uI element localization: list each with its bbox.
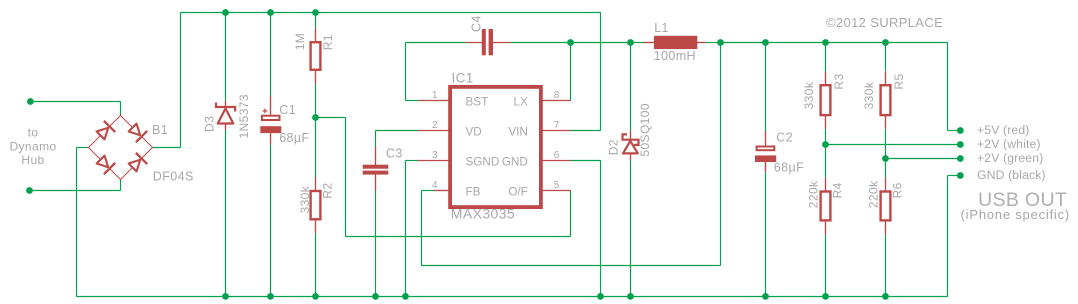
node FB divider junction	[312, 114, 319, 121]
svg-text:+5V (red): +5V (red)	[977, 123, 1030, 137]
junction bottom rail / GND pin	[597, 293, 604, 300]
schottky diode D2	[623, 131, 639, 161]
svg-text:FB: FB	[466, 186, 481, 199]
resistor R5	[862, 71, 906, 129]
wire LX vertical	[570, 43, 572, 101]
capacitor C4	[466, 29, 511, 55]
wire GND pin to rail	[600, 161, 602, 297]
svg-text:330k: 330k	[298, 185, 312, 213]
svg-text:50SQ100: 50SQ100	[638, 103, 652, 157]
wire FB loop horizontal	[422, 265, 721, 267]
svg-text:Hub: Hub	[21, 153, 44, 167]
wire to SGND pin	[406, 160, 419, 162]
wire R2 to GND	[315, 233, 317, 297]
junction bottom rail / R4	[822, 293, 829, 300]
node +5V terminal dot	[957, 127, 964, 134]
wire R6 to GND	[885, 234, 887, 296]
svg-text:68µF: 68µF	[774, 161, 804, 175]
svg-text:100mH: 100mH	[654, 49, 696, 63]
wire to BST pin	[406, 100, 419, 102]
wire O/F loop horizontal	[346, 236, 571, 238]
svg-text:8: 8	[554, 90, 560, 101]
junction bottom rail / SGND	[402, 293, 409, 300]
resistor R4	[807, 178, 845, 235]
svg-text:R1: R1	[321, 34, 335, 50]
svg-text:R6: R6	[891, 182, 905, 198]
wire VOUT to C2 plus	[765, 43, 767, 132]
wire FB node right	[316, 117, 346, 119]
wire VOUT to R3	[825, 43, 827, 72]
junction LX / C4	[567, 39, 574, 46]
wire GND left vertical	[76, 148, 78, 297]
svg-text:C2: C2	[776, 131, 793, 145]
wire R3 to white node	[825, 129, 827, 144]
junction +2V green divider	[882, 155, 889, 162]
svg-text:VD: VD	[466, 126, 482, 139]
bridge rectifier B1 DF04S	[89, 116, 153, 180]
capacitor C3	[363, 147, 389, 191]
svg-text:3: 3	[432, 150, 438, 161]
wire FB loop vertical	[421, 191, 423, 266]
junction bottom rail / R6	[882, 293, 889, 300]
label to Dynamo Hub	[9, 126, 56, 167]
wire GND pin right	[571, 160, 601, 162]
junction bottom rail / D2	[627, 293, 634, 300]
wire VRAW to C1	[270, 13, 272, 97]
node AC2 terminal dot	[26, 187, 33, 194]
pin 7 VIN	[542, 120, 571, 131]
junction bottom rail / C1	[267, 293, 274, 300]
wire dynamo AC2 horizontal	[30, 190, 121, 192]
pin 6 GND	[542, 150, 571, 161]
op-amp U1 : IC1 MAX3035 buck converter	[450, 87, 541, 207]
svg-text:GND: GND	[502, 156, 528, 169]
junction +2V white divider	[822, 141, 829, 148]
svg-text:1N5373: 1N5373	[237, 94, 251, 138]
wire L1 to VOUT	[706, 42, 721, 44]
junction bottom rail / R2	[312, 293, 319, 300]
wire VOUT to R5	[885, 43, 887, 72]
junction bottom rail / C2	[762, 293, 769, 300]
pin 3 SGND	[418, 150, 449, 161]
svg-text:4: 4	[432, 180, 438, 191]
wire GND bottom rail	[77, 296, 948, 298]
wire VRAW top rail	[181, 12, 601, 14]
svg-text:R2: R2	[321, 183, 335, 199]
svg-text:D3: D3	[203, 116, 217, 132]
svg-text:+2V (white): +2V (white)	[977, 137, 1041, 151]
svg-text:7: 7	[554, 120, 560, 131]
wire D3 to GND	[225, 130, 227, 297]
wire +5V terminal	[948, 130, 961, 132]
junction VOUT / R5	[882, 39, 889, 46]
wire AC2 to bridge bottom	[120, 180, 122, 191]
resistor R2	[298, 177, 334, 233]
svg-text:220k: 220k	[807, 180, 821, 208]
svg-text:+2V (green): +2V (green)	[977, 151, 1043, 165]
svg-text:L1: L1	[654, 21, 669, 35]
svg-text:GND (black): GND (black)	[977, 168, 1046, 182]
wire R1 to FB node	[315, 84, 317, 118]
wire dynamo AC1 horizontal	[30, 101, 120, 103]
wire BST loop vertical	[405, 43, 407, 101]
svg-text:68µF: 68µF	[279, 131, 309, 145]
wire VOUT to C2	[721, 42, 766, 44]
wire VOUT to R5	[826, 42, 886, 44]
wire VRAW to D3	[225, 13, 227, 102]
node GND terminal dot	[957, 172, 964, 179]
wire LX to D2 anode	[630, 43, 632, 132]
wire O/F loop vertical right	[570, 191, 572, 237]
wire GND terminal	[948, 175, 961, 177]
wire C4 to LX	[511, 42, 571, 44]
resistor R3	[802, 71, 846, 129]
svg-text:5: 5	[554, 180, 560, 191]
svg-text:MAX3035: MAX3035	[451, 206, 515, 222]
wire LX to D2	[571, 42, 631, 44]
wire green node to R6	[885, 159, 887, 178]
svg-text:BST: BST	[466, 96, 489, 109]
svg-text:1: 1	[432, 90, 438, 101]
junction bottom rail / C3	[372, 293, 379, 300]
svg-text:R4: R4	[831, 182, 845, 198]
pin 2 VD	[418, 120, 449, 131]
wire D2 to GND	[630, 160, 632, 297]
svg-text:D2: D2	[607, 139, 621, 155]
wire C1 to GND	[270, 144, 272, 296]
inductor L1	[644, 36, 706, 49]
svg-text:C1: C1	[279, 103, 296, 117]
wire to O/F pin	[568, 190, 571, 192]
pin 4 FB	[432, 180, 449, 191]
svg-text:2: 2	[432, 120, 438, 131]
svg-text:6: 6	[554, 150, 560, 161]
wire to VIN pin	[571, 130, 601, 132]
wire +5V vertical	[947, 43, 949, 131]
wire to LX pin	[568, 100, 571, 102]
junction VOUT / C2	[762, 39, 769, 46]
pin 1 BST	[418, 90, 449, 101]
junction top rail / C1	[267, 9, 274, 16]
wire FB node down	[315, 118, 317, 179]
wire bridge minus out	[77, 147, 89, 149]
wire SGND to GND rail	[405, 161, 407, 297]
pin 5 O/F	[542, 180, 571, 191]
wire BST to C4	[406, 42, 467, 44]
svg-text:1M: 1M	[293, 33, 307, 50]
polarized capacitor C2	[755, 131, 776, 172]
wire FB loop to VOUT	[720, 43, 722, 266]
junction bottom rail / D3	[222, 293, 229, 300]
svg-text:R3: R3	[832, 73, 846, 89]
svg-text:DF04S: DF04S	[153, 170, 194, 184]
wire white node to R4	[825, 145, 827, 178]
wire C3 to GND	[375, 191, 377, 297]
wire R5 to green node	[885, 129, 887, 158]
wire VRAW left vertical	[180, 13, 182, 148]
wire to VD pin	[376, 130, 419, 132]
svg-text:SGND: SGND	[466, 156, 500, 169]
wire VIN vertical	[600, 13, 602, 131]
junction VOUT / FB loop	[717, 39, 724, 46]
wire +2V green	[886, 158, 961, 160]
svg-text:O/F: O/F	[508, 186, 527, 199]
svg-text:(iPhone specific): (iPhone specific)	[961, 207, 1070, 222]
svg-text:330k: 330k	[862, 81, 876, 109]
wire AC1 to bridge top	[120, 102, 122, 116]
resistor R6	[867, 178, 905, 235]
node +2V white terminal dot	[957, 141, 964, 148]
wire C2 to GND	[765, 162, 767, 297]
zener diode D3	[216, 101, 235, 130]
svg-text:B1: B1	[152, 123, 168, 137]
svg-text:330k: 330k	[802, 81, 816, 109]
node +2V green terminal dot	[957, 155, 964, 162]
junction LX / D2	[627, 39, 634, 46]
wire to FB pin	[422, 190, 436, 192]
junction VOUT / R3	[822, 39, 829, 46]
svg-text:©2012 SURPLACE: ©2012 SURPLACE	[826, 15, 943, 30]
wire O/F loop vertical left	[345, 118, 347, 237]
wire R4 to GND	[825, 234, 827, 296]
wire +2V white	[826, 144, 961, 146]
svg-text:IC1: IC1	[452, 70, 474, 85]
svg-text:to: to	[28, 126, 39, 140]
svg-text:VIN: VIN	[508, 126, 527, 139]
svg-text:220k: 220k	[867, 180, 881, 208]
wire VOUT to R3	[766, 42, 826, 44]
resistor R1	[293, 28, 335, 84]
svg-text:C3: C3	[386, 147, 403, 161]
svg-text:C4: C4	[470, 15, 484, 32]
wire VRAW to R1	[315, 13, 317, 29]
junction top rail / D3	[222, 9, 229, 16]
node AC1 terminal dot	[27, 98, 34, 105]
junction top rail / R1	[312, 9, 319, 16]
wire VOUT to +5V	[886, 42, 948, 44]
svg-text:R5: R5	[892, 73, 906, 89]
pin 8 LX	[542, 90, 571, 101]
wire VD to C3	[375, 131, 377, 147]
wire GND to terminal	[947, 176, 949, 297]
svg-text:LX: LX	[514, 96, 529, 109]
svg-text:Dynamo: Dynamo	[9, 139, 56, 153]
polarized capacitor C1	[260, 96, 281, 145]
wire bridge plus out	[152, 147, 181, 149]
wire D2 to L1	[631, 42, 645, 44]
